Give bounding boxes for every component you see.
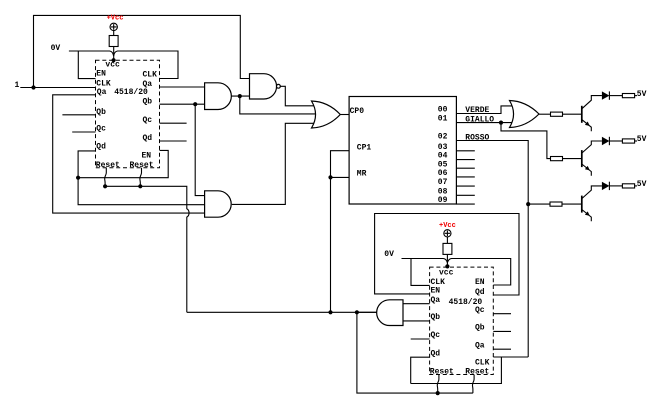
wire rail EN right to Qd rail bbox=[78, 150, 168, 177]
NAND U5 output bubble bbox=[277, 84, 281, 88]
svg-text:Qb: Qb bbox=[431, 313, 441, 322]
svg-text:EN: EN bbox=[475, 278, 485, 287]
svg-text:Qc: Qc bbox=[475, 306, 485, 315]
svg-text:07: 07 bbox=[438, 178, 448, 187]
svg-text:MR: MR bbox=[357, 170, 367, 179]
svg-text:ROSSO: ROSSO bbox=[465, 134, 489, 143]
svg-text:Qd: Qd bbox=[143, 134, 153, 143]
wire D2 to resistor R7 bbox=[609, 140, 622, 142]
wire U1 Qb right to AND U4 input B bbox=[160, 103, 206, 105]
svg-text:CLK: CLK bbox=[475, 359, 490, 368]
svg-text:CLK: CLK bbox=[143, 70, 158, 79]
resistor R9 bbox=[622, 184, 634, 188]
svg-text:Qb: Qb bbox=[475, 324, 485, 333]
LED D3 bbox=[602, 182, 610, 190]
wire U3 CLK right pin bbox=[493, 356, 528, 358]
transistor Q2 bbox=[582, 141, 602, 176]
IC U3 pin labels left column bbox=[430, 269, 454, 377]
node reset rail right bbox=[138, 184, 142, 188]
wire U1 Qa right to AND U4 input A bbox=[160, 86, 206, 88]
node junction ROSSO to Q3 base bbox=[526, 202, 530, 206]
node junction Qb branch bbox=[193, 102, 197, 106]
wire U2 output 01 GIALLO to OR U9 input B bbox=[456, 122, 524, 124]
wire U1 Reset right pin drop with hop bbox=[140, 168, 142, 187]
svg-text:+Vcc: +Vcc bbox=[439, 222, 456, 230]
wire master reset long horizontal to AND U8 output bbox=[187, 311, 377, 313]
svg-text:5V: 5V bbox=[637, 90, 647, 99]
wire U3 Qb left to AND U8 input B bbox=[403, 320, 430, 322]
IC U3 4518/20 dashed outline bbox=[430, 267, 494, 374]
svg-text:CP1: CP1 bbox=[357, 144, 372, 153]
wire 0V drop to U3 CLK left pin bbox=[411, 259, 430, 286]
wire input 1 to U1 CLK pin bbox=[20, 87, 95, 89]
wire lower rail Qd to U3 CLK right bbox=[411, 357, 502, 384]
resistor R8 base Q3 bbox=[550, 202, 562, 206]
svg-text:Qd: Qd bbox=[475, 288, 485, 297]
wire U2 output 03 stub bbox=[456, 150, 474, 152]
wire reset net down to lower reset rail bbox=[357, 312, 473, 393]
resistor R5 bbox=[622, 94, 634, 98]
wire supply to resistor R10 bbox=[446, 237, 448, 244]
OR gate U9 bbox=[510, 101, 540, 128]
node vcc junction U1 bbox=[112, 58, 116, 62]
wire R7 to 5V bbox=[635, 140, 637, 142]
svg-text:Reset: Reset bbox=[430, 368, 454, 377]
AND gate U7 bbox=[205, 191, 232, 217]
IC U3 pin labels right column bbox=[465, 278, 489, 377]
resistor R6 base Q2 bbox=[551, 157, 563, 161]
wire U2 output 04 stub bbox=[456, 159, 474, 161]
wire U2 output 02 ROSSO down right side bbox=[456, 141, 528, 205]
wire U2 output 09 stub bbox=[456, 203, 474, 205]
wire U3 Reset left pin drop with hop bbox=[437, 375, 439, 394]
wire 0V rail with dip at Vcc stem, to U1 CLK right pin bbox=[69, 51, 178, 79]
node junction GIALLO branch bbox=[499, 121, 503, 125]
wire U1 Qc right stub bbox=[160, 122, 187, 124]
OR gate U6 3-input bbox=[312, 101, 341, 128]
svg-text:EN: EN bbox=[142, 151, 152, 160]
wire R10 to U3 vcc pin bbox=[446, 254, 448, 266]
node vcc junction U3 bbox=[445, 264, 449, 268]
svg-text:06: 06 bbox=[438, 169, 448, 178]
node junction reset net on long wire bbox=[328, 310, 332, 314]
wire D1 to resistor R5 bbox=[609, 95, 622, 97]
wire U1 Reset left pin drop with hop bbox=[105, 168, 107, 187]
svg-text:Reset: Reset bbox=[96, 161, 120, 170]
AND gate U8 mirrored bbox=[377, 300, 403, 326]
svg-text:5V: 5V bbox=[637, 180, 647, 189]
wire U2 MR tee bbox=[331, 176, 350, 178]
node junction Qd line and reset rail bbox=[76, 176, 80, 180]
IC U1 4518/20 dashed outline bbox=[96, 60, 160, 168]
svg-text:08: 08 bbox=[438, 187, 448, 196]
wire U2 output 07 stub bbox=[456, 185, 474, 187]
wire 0V rail drop to U1 EN left pin bbox=[78, 51, 95, 79]
transistor Q3 bbox=[582, 186, 602, 221]
LED D1 bbox=[602, 91, 610, 99]
svg-text:01: 01 bbox=[438, 115, 448, 124]
wire reset rail to master reset net with hop over Qa line bbox=[105, 186, 189, 312]
IC U1 pin labels right column bbox=[130, 70, 158, 170]
wire U1 Qb left stub bbox=[62, 114, 95, 116]
wire ROSSO continues down to U3 CLK right bbox=[527, 204, 529, 357]
node junction MR bbox=[328, 175, 332, 179]
wire NAND U5 output to OR U6 input A bbox=[280, 86, 323, 106]
svg-text:CP0: CP0 bbox=[350, 107, 365, 116]
svg-text:Qc: Qc bbox=[143, 116, 153, 125]
svg-text:Reset: Reset bbox=[465, 368, 489, 377]
node junction lower reset rail bbox=[436, 391, 440, 395]
wire R1 to U1 vcc pin bbox=[113, 47, 115, 61]
NAND gate U5 bbox=[250, 74, 277, 99]
svg-text:5V: 5V bbox=[637, 135, 647, 144]
svg-text:vcc: vcc bbox=[439, 269, 454, 278]
svg-text:03: 03 bbox=[438, 143, 448, 152]
wire AND U8 output to reset net bbox=[357, 311, 377, 313]
wire U2 output 00 VERDE to OR U9 input A bbox=[456, 106, 524, 114]
wire feedback loop from node 1 up over to NAND U5 input A bbox=[34, 15, 250, 87]
svg-text:CLK: CLK bbox=[431, 278, 446, 287]
svg-text:09: 09 bbox=[438, 196, 448, 205]
op... AND gate U4 bbox=[205, 83, 232, 110]
wire U2 output 08 stub bbox=[456, 194, 474, 196]
LED D2 bbox=[602, 137, 610, 145]
wire U2 output 05 stub bbox=[456, 167, 474, 169]
svg-text:+Vcc: +Vcc bbox=[107, 15, 124, 23]
node junction at 1/CLK bbox=[31, 85, 35, 89]
wire supply to resistor R1 bbox=[113, 31, 115, 36]
svg-text:4518/20: 4518/20 bbox=[114, 88, 148, 97]
wire U3 Reset right pin drop with hop bbox=[472, 375, 474, 394]
wire U3 Qc left stub bbox=[411, 338, 430, 340]
svg-text:Qc: Qc bbox=[431, 331, 441, 340]
svg-text:Qa: Qa bbox=[431, 296, 441, 305]
wire OR U6 output to U2 CP0 bbox=[340, 114, 349, 116]
svg-text:00: 00 bbox=[438, 106, 448, 115]
svg-text:EN: EN bbox=[96, 69, 106, 78]
IC U2 4017 counter box bbox=[349, 97, 456, 205]
power symbol supply circle bottom bbox=[444, 230, 451, 237]
svg-text:0V: 0V bbox=[384, 250, 394, 259]
resistor R10 vertical bbox=[443, 243, 452, 254]
power symbol supply circle top bbox=[110, 23, 117, 30]
wire R4 to Q1 base bbox=[563, 113, 582, 115]
node junction AND U4 output bbox=[238, 94, 242, 98]
wire R9 to 5V bbox=[635, 185, 637, 187]
svg-text:EN: EN bbox=[431, 287, 441, 296]
wire OR U9 output to resistor R4 bbox=[539, 113, 551, 115]
svg-text:05: 05 bbox=[438, 160, 448, 169]
node junction reset net to lower rail bbox=[355, 310, 359, 314]
svg-text:vcc: vcc bbox=[105, 61, 120, 70]
wire AND U4 output to NAND U5 input B bbox=[231, 95, 250, 97]
wire 0V rail bottom with dip, to U3 EN right pin bbox=[402, 259, 511, 286]
wire U3 Qd right loop to U3 EN left cascade bbox=[375, 214, 519, 296]
svg-text:Qa: Qa bbox=[475, 341, 485, 350]
IC U1 pin labels left column bbox=[96, 61, 120, 170]
wire D3 to resistor R9 bbox=[609, 185, 622, 187]
wire U1 Qd left to AND U7 input B bbox=[78, 151, 205, 205]
svg-text:Qa: Qa bbox=[97, 88, 107, 97]
wire Qb branch down to AND U7 input A bbox=[195, 104, 205, 195]
resistor R7 bbox=[622, 139, 634, 143]
svg-text:4518/20: 4518/20 bbox=[449, 298, 483, 307]
resistor R1 vertical bbox=[109, 36, 118, 47]
svg-text:Qb: Qb bbox=[96, 108, 106, 117]
wire R8 to Q3 base bbox=[562, 203, 582, 205]
resistor R4 base Q1 bbox=[551, 112, 563, 116]
wire R5 to 5V bbox=[635, 95, 637, 97]
svg-text:Qb: Qb bbox=[143, 98, 153, 107]
svg-text:Qd: Qd bbox=[431, 350, 441, 359]
wire U1 Qc left stub bbox=[72, 131, 95, 133]
wire U2 output 06 stub bbox=[456, 176, 474, 178]
wire U3 Qd left down to rail bbox=[411, 357, 430, 383]
wire U3 Qc right stub bbox=[493, 313, 511, 315]
wire U1 Qa left to AND U7 input C bbox=[53, 95, 206, 213]
svg-text:CLK: CLK bbox=[96, 79, 111, 88]
node reset rail left bbox=[103, 184, 107, 188]
wire U1 Qd right stub bbox=[160, 140, 187, 142]
svg-text:02: 02 bbox=[438, 133, 448, 142]
wire R6 to Q2 base bbox=[563, 158, 582, 160]
svg-text:1: 1 bbox=[15, 81, 20, 90]
wire GIALLO branch to transistor Q2 base resistor bbox=[501, 123, 551, 159]
wire ROSSO node to resistor R8 bbox=[528, 203, 550, 205]
wire U3 Qa right stub bbox=[493, 348, 511, 350]
transistor Q1 bbox=[582, 96, 602, 132]
wire U2 CP1 to reset net vertical bbox=[331, 151, 350, 313]
svg-text:Qc: Qc bbox=[96, 125, 106, 134]
wire U3 Qa left to AND U8 input A bbox=[403, 303, 430, 305]
IC U2 output pin labels 00-09 bbox=[438, 106, 448, 206]
wire AND U4 output branch to OR U6 input B bbox=[240, 96, 323, 114]
wire U3 Qb right stub bbox=[493, 330, 511, 332]
svg-text:0V: 0V bbox=[51, 44, 61, 53]
wire AND U7 output to OR U6 input C bbox=[232, 123, 323, 204]
svg-text:Qd: Qd bbox=[96, 143, 106, 152]
